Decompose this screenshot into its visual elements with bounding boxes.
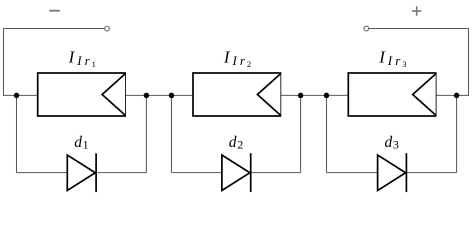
current source U3 box (348, 73, 435, 116)
wire node B between unit 1 and unit 2 (125, 94, 193, 96)
svg-text:d2: d2 (229, 134, 243, 152)
terminal circle negative (105, 26, 110, 31)
svg-text:IIr2: IIr2 (223, 47, 251, 69)
junction dot node A (14, 93, 20, 99)
wire positive terminal to node D (369, 29, 469, 96)
wire diode row 3 (327, 172, 457, 174)
current source U2 box (193, 73, 280, 116)
wire down left of diode d1 (16, 95, 18, 172)
wire negative terminal to node A (4, 29, 105, 96)
junction dot right of unit 2 (298, 93, 304, 99)
wire down right of diode d1 (145, 95, 147, 172)
svg-text:IIr3: IIr3 (378, 47, 406, 69)
wire down left of diode d2 (171, 95, 173, 172)
wire diode row 1 (17, 172, 147, 174)
svg-text:d3: d3 (385, 134, 399, 152)
label minus terminal (49, 10, 60, 12)
label I_Ir3 (378, 47, 406, 69)
junction dot left of unit 3 (324, 93, 330, 99)
wire node C between unit 2 and unit 3 (280, 94, 348, 96)
junction dot right of unit 1 (144, 93, 150, 99)
label plus terminal (412, 6, 421, 15)
junction dot left of unit 2 (169, 93, 175, 99)
label I_Ir2 (223, 47, 251, 69)
svg-text:IIr1: IIr1 (68, 47, 96, 69)
label d2 (229, 134, 243, 152)
label d1 (74, 134, 88, 152)
label I_Ir1 (68, 47, 96, 69)
diode d3 (378, 153, 407, 192)
wire diode row 2 (172, 172, 301, 174)
wire down left of diode d3 (326, 95, 328, 172)
svg-text:d1: d1 (74, 134, 88, 152)
junction dot node D right of unit 3 (454, 93, 460, 99)
diode d1 (67, 153, 96, 192)
terminal circle positive (364, 26, 369, 31)
label d3 (385, 134, 399, 152)
current source U1 box (38, 73, 125, 116)
wire down right of diode d2 (300, 95, 302, 172)
wire down right of diode d3 (456, 95, 458, 172)
diode d2 (222, 153, 251, 192)
